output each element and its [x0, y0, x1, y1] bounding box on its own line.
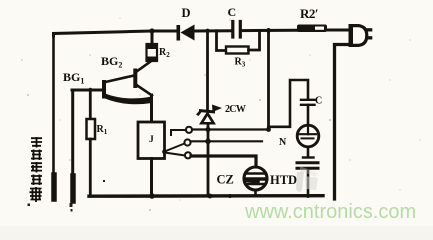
svg-text:www.cntronics.com: www.cntronics.com [244, 201, 416, 223]
svg-text:J: J [149, 135, 154, 145]
svg-text:HTD: HTD [270, 173, 297, 187]
svg-text:C: C [315, 96, 322, 107]
svg-text:C: C [228, 5, 237, 19]
svg-text:R2′: R2′ [300, 6, 318, 21]
svg-text:D: D [182, 6, 191, 20]
svg-text:2CW: 2CW [225, 104, 246, 115]
svg-text:CZ: CZ [217, 173, 234, 187]
svg-text:N: N [279, 137, 287, 148]
